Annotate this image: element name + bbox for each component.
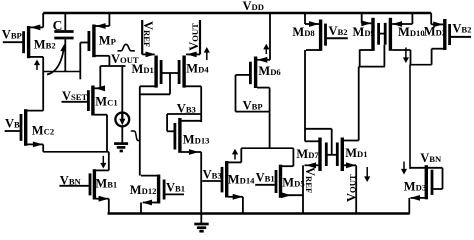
wire down to MD3 drain [409,65,411,169]
svg-text:VB1: VB1 [256,170,275,184]
svg-text:VOUT: VOUT [344,174,358,202]
transistor MD7 [318,138,321,172]
transistor MC1 [91,86,94,116]
transistor MB1 [93,169,96,199]
svg-text:VSET: VSET [62,89,88,103]
ground under current source [114,142,128,145]
wire MD9-MD10 gate link [379,33,386,35]
ground rail (bottom wire) [108,212,410,215]
current arrow down right of MD1 [366,167,368,178]
svg-text:MD8: MD8 [292,25,315,39]
svg-text:VBN: VBN [420,151,442,165]
svg-text:VOUT: VOUT [187,23,201,51]
transistor MD13 [178,118,181,153]
current arrow down below MD10 [405,48,407,59]
transistor MD8 [319,20,322,51]
transistor MB2 [27,26,30,58]
transistor MC2 [24,109,27,146]
transistor MD5 [279,165,282,198]
transistor MD10 [389,18,392,51]
current arrow up at MD6 drain [265,48,267,54]
svg-text:VB2: VB2 [452,22,471,36]
wire MD10-MD2 source node [410,64,432,66]
svg-text:MD2: MD2 [424,25,446,39]
svg-text:MD5: MD5 [282,175,304,189]
current source I_SET [121,66,123,112]
svg-text:MD11: MD11 [132,62,158,76]
node VOUT (first stage) [100,65,125,67]
transistor MD6 [254,57,257,89]
svg-text:MB1: MB1 [95,176,117,190]
net label VOUT (rotated, input to MD4) [199,20,201,54]
wire MC2 source - MC1 source - MB1 drain [43,151,109,153]
svg-text:VBP: VBP [2,27,22,41]
current arrow up at MD14 drain [234,153,236,159]
svg-text:MD1: MD1 [345,146,367,160]
transistor MD3 [425,165,428,199]
svg-text:VB3: VB3 [203,168,222,182]
svg-text:MD10: MD10 [398,25,425,39]
svg-text:MC2: MC2 [32,123,54,137]
svg-text:MP: MP [99,33,116,47]
transistor MD9 [371,18,374,51]
svg-text:MC1: MC1 [95,94,117,108]
wire MD9 source node to MD10 gate and MD1 drain [359,66,385,68]
current arrow down at MB1 drain [102,156,104,164]
current arrow up at MB2 source [36,64,38,70]
svg-text:MD13: MD13 [183,132,210,146]
net label VREF (rotated, at MD7 source) [302,165,304,213]
current arrow down left of MD3 [403,162,405,171]
transistor MD11 [154,56,157,88]
compensation curved arrow [47,49,64,75]
wire MD11-MD4 gate link [161,72,179,74]
svg-text:MD12: MD12 [130,183,157,197]
transistor MP [92,25,95,58]
current arrow up right of MD4 [206,52,208,61]
svg-text:MB2: MB2 [34,37,56,51]
svg-text:MD3: MD3 [404,179,426,193]
ground symbol at bottom rail [200,215,202,224]
transistor MD12 [157,175,160,204]
net label VREF (rotated, input to MD11) [141,20,143,54]
capacitor C [64,13,66,31]
svg-text:MD7: MD7 [296,147,319,161]
svg-text:VBP: VBP [243,98,263,112]
VDD rail (top supply wire) [43,12,431,15]
svg-text:VB: VB [5,116,20,130]
transistor MD14 [225,161,228,198]
svg-text:C: C [53,18,63,33]
transistor MD4 [182,56,185,88]
pulse waveform glyph [118,44,135,51]
step waveform glyph [131,131,141,141]
svg-text:VDD: VDD [243,0,264,13]
wire MD7-MD1 gate link [326,154,337,156]
svg-text:MD14: MD14 [228,172,255,186]
MD6 gate loop with label VBP [236,74,250,76]
svg-text:VB2: VB2 [329,24,348,38]
svg-text:VREF: VREF [303,167,317,193]
transistor MD2 [443,19,446,50]
wire node B (MD14-MD6-MD5) [241,147,293,149]
svg-text:MD6: MD6 [258,64,281,78]
svg-text:VREF: VREF [141,21,155,47]
svg-text:MD9: MD9 [353,25,375,39]
wire node A (MB2 source - C bottom - MP gate) [43,71,80,73]
svg-text:VB1: VB1 [166,180,185,194]
svg-text:MD4: MD4 [186,62,209,76]
transistor MD1 [341,138,344,172]
